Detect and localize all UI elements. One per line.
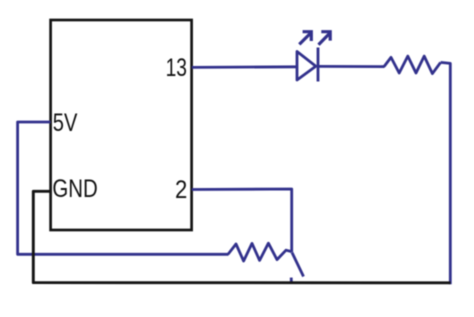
- svg-text:GND: GND: [52, 175, 97, 203]
- resistor R2 (bottom, zigzag): [228, 243, 292, 261]
- wire pin 2 to switch junction node: [192, 189, 292, 252]
- wire LED cathode to resistor R1: [318, 65, 385, 68]
- wire GND (left, down, along bottom to right rail): [33, 191, 450, 282]
- switch S1 lower contact stub: [290, 278, 293, 284]
- LED D1 cathode bar: [317, 48, 320, 82]
- LED light arrow 2: [319, 32, 331, 45]
- wire 5V rail (left, down, along to resistor R2): [18, 122, 229, 254]
- resistor R1 (top, zigzag): [384, 56, 441, 74]
- wire pin 13 to LED anode: [192, 65, 298, 68]
- wire R1 to right rail corner and down: [441, 62, 451, 284]
- svg-text:13: 13: [166, 54, 187, 82]
- svg-text:5V: 5V: [53, 109, 78, 137]
- LED light arrow 1: [299, 32, 311, 45]
- svg-text:2: 2: [175, 176, 187, 204]
- IC U1 (microcontroller body): [51, 20, 192, 230]
- LED D1 triangle (anode): [297, 52, 316, 81]
- switch S1 actuator (open blade): [292, 253, 304, 277]
